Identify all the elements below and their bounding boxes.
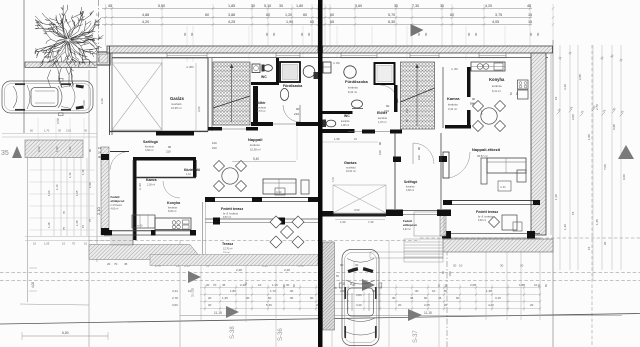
- svg-text:3,66 m²: 3,66 m²: [145, 149, 154, 152]
- svg-text:2,78: 2,78: [172, 296, 178, 300]
- right kitchen appliances: [518, 80, 529, 89]
- left unit washing machine: [252, 64, 260, 73]
- svg-text:1,80: 1,80: [296, 4, 303, 8]
- divider hatch band bottom: [323, 242, 335, 330]
- right garage parking cross: [333, 185, 386, 213]
- svg-text:1,70: 1,70: [44, 129, 50, 133]
- svg-text:4,20: 4,20: [485, 4, 492, 8]
- svg-text:15: 15: [33, 242, 36, 246]
- svg-text:1,28: 1,28: [75, 220, 79, 226]
- svg-text:90: 90: [441, 270, 445, 274]
- svg-text:4,25: 4,25: [228, 20, 235, 24]
- konyha door arc: [163, 181, 180, 198]
- tree: [35, 5, 103, 87]
- svg-text:7,00: 7,00: [603, 164, 607, 170]
- svg-text:4,60 m²: 4,60 m²: [111, 208, 119, 211]
- step notch 1: [370, 252, 443, 258]
- front fence wall band: [25, 62, 97, 68]
- svg-text:9,82 m²: 9,82 m²: [478, 219, 486, 222]
- left dim rows above strip: [2, 133, 97, 135]
- right entry door arc: [413, 143, 434, 164]
- svg-text:előlépcső: előlépcső: [111, 199, 125, 203]
- svg-text:16,51 m²: 16,51 m²: [346, 170, 356, 173]
- svg-text:4,05: 4,05: [492, 20, 499, 24]
- svg-text:240: 240: [448, 271, 452, 276]
- svg-text:90: 90: [310, 296, 314, 300]
- left terrace bottom hatch B: [150, 255, 318, 266]
- svg-text:9,87 m²: 9,87 m²: [223, 216, 231, 219]
- svg-text:1,20: 1,20: [285, 13, 292, 17]
- kamra right walls: [467, 67, 471, 97]
- left bathroom radiator: [314, 72, 319, 79]
- svg-text:6,80: 6,80: [62, 331, 69, 335]
- right garage right wall: [394, 133, 396, 209]
- svg-text:60: 60: [450, 13, 454, 17]
- right dimension block lines: [559, 45, 561, 270]
- svg-text:210: 210: [166, 150, 171, 154]
- dashed vertical x592: [591, 45, 593, 347]
- svg-text:20: 20: [444, 303, 448, 307]
- stairs left unit: [213, 62, 250, 125]
- svg-text:8,44 m²: 8,44 m²: [348, 90, 357, 94]
- svg-text:6,11 m²: 6,11 m²: [492, 89, 501, 93]
- left unit bathroom walls: [251, 82, 279, 85]
- left terrace edge: [205, 218, 318, 220]
- svg-text:30: 30: [355, 263, 359, 267]
- svg-text:30: 30: [279, 4, 283, 8]
- small triangle near divider: [324, 274, 333, 283]
- svg-text:Terasz: Terasz: [222, 242, 233, 246]
- party wall thick divider: [318, 0, 323, 347]
- svg-text:20: 20: [206, 283, 210, 287]
- wall below stairs: [208, 127, 222, 131]
- svg-text:60: 60: [183, 32, 187, 36]
- svg-text:3,75: 3,75: [495, 13, 502, 17]
- svg-text:60: 60: [330, 13, 334, 17]
- left kitchen cabinets: [132, 215, 155, 228]
- svg-text:3,44: 3,44: [172, 289, 178, 293]
- right bottom hatch band: [443, 239, 553, 252]
- terrace chairs group: [270, 216, 282, 228]
- svg-text:60: 60: [205, 13, 209, 17]
- svg-text:70: 70: [62, 210, 66, 214]
- sofa left unit: [263, 179, 296, 194]
- svg-text:225 m²: 225 m²: [223, 251, 230, 254]
- dashed horizontal y280: [0, 280, 640, 282]
- stair break line left: [213, 96, 250, 108]
- svg-text:3,00: 3,00: [82, 100, 86, 106]
- svg-text:90: 90: [290, 296, 294, 300]
- svg-text:210: 210: [294, 112, 299, 116]
- svg-text:4,00: 4,00: [31, 282, 35, 288]
- svg-text:kerámia: kerámia: [492, 84, 502, 88]
- left unit bath sink oval: [280, 89, 288, 101]
- walkway pillar top: [101, 154, 109, 160]
- long verticals bottom block: [331, 240, 333, 347]
- svg-text:65: 65: [310, 20, 314, 24]
- svg-text:Nappali-étkező: Nappali-étkező: [472, 147, 501, 152]
- svg-text:Fedett terasz: Fedett terasz: [476, 210, 498, 214]
- svg-text:16,95 m²: 16,95 m²: [171, 106, 182, 110]
- svg-text:70: 70: [213, 283, 217, 287]
- svg-text:Előtér: Előtér: [256, 101, 266, 105]
- svg-text:kerámia: kerámia: [448, 103, 458, 107]
- svg-text:5,00: 5,00: [158, 4, 165, 8]
- svg-text:20: 20: [453, 264, 457, 268]
- svg-text:90: 90: [424, 296, 428, 300]
- svg-text:60: 60: [424, 32, 428, 36]
- svg-text:30: 30: [440, 4, 444, 8]
- car parked left: [2, 78, 93, 115]
- svg-text:10: 10: [432, 289, 436, 293]
- marker triangle north top: [411, 24, 424, 37]
- svg-text:45: 45: [438, 296, 442, 300]
- right dining table: [473, 101, 484, 112]
- marker S-39 triangle: [188, 271, 201, 283]
- right stairs: [401, 62, 435, 129]
- svg-text:30: 30: [415, 289, 419, 293]
- svg-text:1,90: 1,90: [340, 220, 346, 224]
- svg-text:m 90: m 90: [276, 191, 282, 194]
- svg-text:1,05: 1,05: [44, 242, 50, 246]
- corner pillar: [97, 52, 110, 65]
- property boundary line left: [23, 0, 25, 133]
- svg-text:20: 20: [520, 264, 524, 268]
- svg-text:2,05: 2,05: [424, 303, 430, 307]
- svg-text:4,20: 4,20: [142, 20, 149, 24]
- walkway pillar bottom: [101, 228, 109, 235]
- left unit west rooms walls: [133, 157, 196, 161]
- svg-text:1,30: 1,30: [563, 224, 567, 230]
- szelfogo entry door arc: [110, 152, 129, 171]
- svg-text:15: 15: [62, 242, 65, 246]
- svg-text:15: 15: [81, 224, 85, 228]
- svg-text:15: 15: [528, 20, 532, 24]
- svg-text:210: 210: [384, 109, 389, 113]
- terrace west edge lines: [202, 202, 204, 254]
- dashed horizontal y272: [0, 272, 640, 274]
- driveway dim: [335, 219, 385, 221]
- svg-text:7,30: 7,30: [412, 4, 419, 8]
- right bath sink oval: [352, 100, 363, 108]
- svg-text:1,00: 1,00: [47, 190, 51, 196]
- svg-text:m 180: m 180: [333, 62, 340, 65]
- svg-text:S-38: S-38: [230, 326, 236, 339]
- svg-text:Konyha: Konyha: [167, 201, 181, 205]
- svg-text:20: 20: [208, 296, 212, 300]
- svg-text:1,98 m²: 1,98 m²: [341, 124, 349, 127]
- dining table left unit: [214, 161, 225, 172]
- svg-text:15: 15: [528, 13, 532, 17]
- left stove burners: [172, 221, 176, 225]
- svg-text:1,85: 1,85: [228, 4, 235, 8]
- svg-text:1,88: 1,88: [519, 283, 525, 287]
- right front door blocks: [393, 210, 403, 217]
- svg-text:5,00: 5,00: [331, 176, 335, 182]
- svg-text:2,08: 2,08: [470, 283, 476, 287]
- right washer: [323, 62, 331, 73]
- left unit wall y122: [251, 122, 273, 126]
- svg-text:30: 30: [251, 4, 255, 8]
- svg-text:m 180: m 180: [139, 183, 142, 190]
- axis dash-dot line top-left: [98, 0, 100, 62]
- svg-text:1,90: 1,90: [55, 146, 59, 152]
- svg-text:Szélfogó: Szélfogó: [404, 180, 417, 184]
- svg-text:Szélfogó: Szélfogó: [143, 140, 159, 144]
- wall right of stairs: [253, 86, 258, 124]
- right basin circle: [344, 66, 356, 78]
- svg-text:5,10: 5,10: [264, 4, 271, 8]
- left unit shower: [280, 62, 300, 82]
- svg-text:90: 90: [296, 107, 300, 111]
- svg-text:60: 60: [529, 32, 533, 36]
- svg-text:3,42 m²: 3,42 m²: [448, 107, 457, 111]
- svg-text:120: 120: [212, 141, 217, 145]
- svg-text:90: 90: [386, 104, 390, 108]
- tv unit left: [301, 180, 309, 194]
- svg-text:20: 20: [208, 303, 212, 307]
- svg-text:m 380: m 380: [186, 65, 194, 69]
- svg-text:30: 30: [58, 129, 61, 133]
- garage door bar: [156, 131, 194, 136]
- svg-text:60: 60: [300, 32, 304, 36]
- svg-text:1,13: 1,13: [55, 184, 59, 190]
- svg-text:m 15 beton: m 15 beton: [111, 204, 123, 207]
- dashed horizontal y238 right: [420, 237, 640, 239]
- dim 11,15 line: [180, 315, 622, 317]
- left unit top outer wall hatched: [107, 46, 318, 53]
- svg-text:3,60: 3,60: [355, 4, 362, 8]
- svg-text:2,30: 2,30: [100, 98, 104, 104]
- interior extension verticals: [186, 26, 188, 62]
- right eloter door arc: [380, 85, 398, 103]
- svg-text:1,35: 1,35: [222, 296, 228, 300]
- right shower: [375, 63, 395, 84]
- svg-text:90: 90: [246, 296, 250, 300]
- svg-text:Garázs: Garázs: [344, 161, 357, 165]
- svg-text:75: 75: [88, 218, 92, 222]
- svg-text:S-39: S-39: [190, 287, 195, 297]
- svg-text:3,60: 3,60: [172, 303, 178, 307]
- right site vertical x553: [552, 40, 554, 347]
- svg-text:3,60: 3,60: [354, 208, 360, 212]
- svg-text:60: 60: [272, 32, 276, 36]
- svg-text:kerámia: kerámia: [348, 86, 358, 90]
- svg-text:2,48: 2,48: [284, 268, 290, 272]
- left kitchen counter: [155, 218, 191, 230]
- svg-text:Fürdőszoba: Fürdőszoba: [283, 84, 302, 88]
- svg-text:3,80: 3,80: [356, 293, 362, 297]
- svg-text:210: 210: [417, 155, 421, 160]
- svg-text:5,40: 5,40: [266, 303, 272, 307]
- svg-text:előlépcső: előlépcső: [403, 223, 417, 227]
- svg-text:16,38 m²: 16,38 m²: [250, 148, 261, 152]
- right terrace bottom wall: [443, 233, 540, 235]
- svg-text:2,50: 2,50: [56, 118, 60, 124]
- svg-text:9,60: 9,60: [37, 146, 41, 152]
- garage room: [112, 58, 208, 131]
- stair break line right: [401, 88, 435, 102]
- right wc walls: [323, 111, 353, 114]
- svg-text:2,48: 2,48: [236, 268, 242, 272]
- bottom-left dim 6,80: [22, 335, 108, 337]
- svg-text:10: 10: [459, 264, 463, 268]
- right block mid tick labels: [557, 112, 560, 115]
- bottom dimension rows: [200, 287, 540, 289]
- svg-text:1,90: 1,90: [286, 20, 293, 24]
- svg-text:Fürdőszoba: Fürdőszoba: [345, 79, 368, 84]
- left boundary inner vertical: [27, 140, 29, 302]
- svg-text:3,40: 3,40: [356, 303, 362, 307]
- svg-text:2,10: 2,10: [96, 206, 101, 215]
- svg-text:45: 45: [84, 129, 87, 133]
- street curb sloped line: [0, 314, 640, 325]
- svg-text:90: 90: [290, 289, 294, 293]
- svg-text:65: 65: [330, 20, 334, 24]
- svg-text:4,20: 4,20: [488, 303, 494, 307]
- svg-text:1,98: 1,98: [334, 137, 340, 141]
- right unit wall y130: [362, 130, 375, 134]
- svg-text:1,28: 1,28: [47, 222, 51, 228]
- left dim column extensions up: [37, 118, 39, 140]
- svg-text:15: 15: [587, 246, 591, 250]
- svg-text:60: 60: [536, 32, 540, 36]
- svg-text:20: 20: [107, 262, 111, 266]
- svg-text:1,80: 1,80: [230, 289, 236, 293]
- svg-text:1,90: 1,90: [88, 182, 92, 188]
- marker S-38 triangle: [226, 306, 239, 318]
- svg-text:1,30: 1,30: [554, 194, 558, 200]
- svg-text:10: 10: [258, 283, 262, 287]
- svg-text:90: 90: [168, 145, 172, 149]
- car parked bottom: [339, 250, 382, 346]
- svg-text:1,70: 1,70: [270, 289, 276, 293]
- svg-text:70: 70: [114, 262, 118, 266]
- vertical line x246: [245, 262, 247, 322]
- right terrace table: [502, 215, 517, 230]
- marker S-37 triangle on car: [362, 279, 375, 291]
- svg-text:4,62 m²: 4,62 m²: [403, 228, 411, 231]
- svg-text:5,70: 5,70: [388, 13, 395, 17]
- dash-dot vertical x447: [446, 238, 448, 347]
- east marker triangle: [618, 145, 634, 159]
- svg-text:WC: WC: [261, 75, 267, 79]
- right toilet: [326, 120, 336, 127]
- left unit hall wall: [207, 58, 209, 131]
- svg-text:1,90: 1,90: [68, 146, 72, 152]
- garage cross: [112, 63, 162, 130]
- right coffee table: [498, 181, 511, 191]
- left dimension block lines: [40, 158, 42, 236]
- left sink: [183, 220, 190, 224]
- svg-text:70: 70: [72, 242, 75, 246]
- svg-text:3,88: 3,88: [228, 13, 235, 17]
- right garage door bar: [333, 214, 386, 217]
- svg-text:6,30: 6,30: [388, 20, 395, 24]
- svg-text:1,97 m²: 1,97 m²: [378, 121, 387, 124]
- svg-text:90: 90: [456, 296, 460, 300]
- kamra door arc: [470, 103, 482, 115]
- svg-text:60: 60: [303, 13, 307, 17]
- site vertical line x89: [88, 70, 90, 347]
- left unit south wall: [205, 197, 318, 199]
- svg-text:3,68 m²: 3,68 m²: [406, 189, 414, 192]
- S-35 marker triangle: [12, 146, 22, 158]
- right kitchen counter top: [471, 62, 505, 71]
- svg-text:30: 30: [392, 296, 396, 300]
- svg-text:90: 90: [88, 148, 92, 152]
- svg-text:S-36: S-36: [278, 328, 284, 341]
- svg-text:5,40: 5,40: [253, 157, 259, 161]
- dashed horizontal y240 left: [89, 240, 420, 242]
- svg-text:kerámia: kerámia: [341, 120, 350, 123]
- svg-text:45: 45: [527, 4, 531, 8]
- svg-text:kerámia: kerámia: [250, 143, 260, 147]
- right sofa: [487, 158, 526, 173]
- right entry door leaf: [443, 152, 449, 178]
- svg-text:4,88: 4,88: [142, 13, 149, 17]
- svg-text:mosható: mosható: [171, 102, 182, 106]
- right unit south wall: [443, 200, 540, 202]
- svg-text:2,88: 2,88: [578, 74, 582, 80]
- svg-text:20: 20: [530, 303, 534, 307]
- svg-text:WC: WC: [344, 114, 350, 118]
- svg-text:8,26 m²: 8,26 m²: [168, 210, 177, 213]
- coffee table left: [275, 188, 285, 195]
- top dimension lines: [102, 8, 532, 10]
- svg-text:60: 60: [265, 32, 269, 36]
- svg-text:Fedett terasz: Fedett terasz: [221, 207, 243, 211]
- svg-text:1,58: 1,58: [587, 134, 591, 140]
- svg-text:Garázs: Garázs: [170, 96, 185, 101]
- svg-text:30: 30: [286, 283, 290, 287]
- svg-text:Konyha: Konyha: [489, 77, 505, 82]
- svg-text:60: 60: [467, 32, 471, 36]
- svg-text:90: 90: [417, 147, 421, 150]
- svg-text:1,45: 1,45: [595, 219, 599, 225]
- svg-text:210: 210: [378, 150, 382, 155]
- svg-text:90: 90: [378, 142, 382, 145]
- bottom row tick slashes: [204, 286, 206, 288]
- left entry steps: [110, 236, 133, 238]
- right unit right outer wall hatched: [531, 53, 546, 235]
- left unit door arc: [283, 105, 300, 122]
- svg-text:S-37: S-37: [413, 330, 419, 343]
- window boxes in top wall: [167, 53, 207, 58]
- svg-text:1,39: 1,39: [81, 169, 85, 175]
- svg-text:60: 60: [190, 32, 194, 36]
- left hatched strip: [25, 140, 83, 158]
- svg-text:2,38 m²: 2,38 m²: [147, 184, 155, 187]
- svg-text:60: 60: [30, 129, 33, 133]
- svg-text:7,30: 7,30: [368, 220, 374, 224]
- svg-text:75: 75: [62, 226, 66, 230]
- svg-text:3,15: 3,15: [495, 296, 501, 300]
- left dim bottom rows: [25, 236, 110, 238]
- svg-text:20: 20: [603, 241, 607, 245]
- right entry steps: [404, 238, 443, 240]
- left walkway hatch band: [101, 147, 109, 235]
- right garage dim row: [323, 141, 379, 143]
- svg-text:1,16: 1,16: [68, 172, 72, 178]
- svg-text:60: 60: [266, 13, 270, 17]
- svg-text:11,15: 11,15: [424, 311, 432, 315]
- site vertical line x97: [96, 46, 98, 262]
- right porch hatch edge: [440, 212, 446, 236]
- svg-text:45: 45: [410, 296, 414, 300]
- svg-text:39,57 m²: 39,57 m²: [477, 154, 488, 158]
- svg-text:210: 210: [212, 146, 217, 150]
